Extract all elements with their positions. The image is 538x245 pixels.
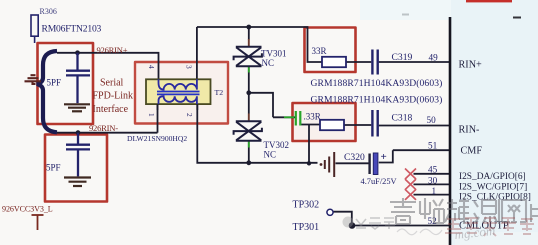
svg-text:33R: 33R xyxy=(312,46,327,56)
svg-text:T2: T2 xyxy=(215,88,224,97)
svg-text:I2S_WC/GPIO[7]: I2S_WC/GPIO[7] xyxy=(459,182,527,192)
svg-text:926RIN+: 926RIN+ xyxy=(97,45,128,55)
svg-text:52: 52 xyxy=(428,216,438,226)
svg-text:TV302: TV302 xyxy=(264,140,290,150)
svg-text:CMF: CMF xyxy=(461,146,483,157)
svg-text:926RIN-: 926RIN- xyxy=(89,123,118,133)
svg-text:4.7uF/25V: 4.7uF/25V xyxy=(361,177,397,186)
svg-text:I2S_DA/GPIO[6]: I2S_DA/GPIO[6] xyxy=(459,172,526,182)
svg-text:1: 1 xyxy=(432,186,437,196)
svg-text:.33R: .33R xyxy=(304,112,321,122)
svg-text:GRM188R71H104KA93D(0603): GRM188R71H104KA93D(0603) xyxy=(311,94,443,105)
svg-text:49: 49 xyxy=(429,53,439,63)
svg-text:DLW21SN900HQ2: DLW21SN900HQ2 xyxy=(127,134,187,143)
svg-text:C319: C319 xyxy=(392,52,413,63)
svg-text:30: 30 xyxy=(428,175,438,185)
svg-text:RIN-: RIN- xyxy=(459,125,481,136)
svg-text:4: 4 xyxy=(147,65,156,69)
svg-text:Interface: Interface xyxy=(93,104,129,115)
svg-text:5PF: 5PF xyxy=(46,163,61,173)
svg-text:+: + xyxy=(381,151,387,163)
svg-text:45: 45 xyxy=(428,165,438,175)
svg-text:TP301: TP301 xyxy=(293,222,320,233)
svg-text:TV301: TV301 xyxy=(261,49,287,59)
svg-text:FPD-Link: FPD-Link xyxy=(93,90,134,101)
svg-text:RM06FTN2103: RM06FTN2103 xyxy=(42,24,102,35)
svg-text:C318: C318 xyxy=(392,113,413,124)
svg-text:926VCC3V3_L: 926VCC3V3_L xyxy=(2,205,53,214)
svg-text:1: 1 xyxy=(147,113,156,117)
svg-text:C320: C320 xyxy=(344,152,365,163)
svg-text:5PF: 5PF xyxy=(47,78,62,88)
svg-text:NC: NC xyxy=(264,149,277,159)
svg-text:51: 51 xyxy=(428,141,438,151)
svg-text:2: 2 xyxy=(185,113,194,117)
svg-text:RIN+: RIN+ xyxy=(459,60,483,71)
svg-text:Serial: Serial xyxy=(100,77,124,88)
svg-text:TP302: TP302 xyxy=(293,200,320,211)
svg-text:3: 3 xyxy=(185,65,194,69)
svg-text:NC: NC xyxy=(262,58,275,68)
svg-text:R306: R306 xyxy=(40,7,57,16)
svg-text:50: 50 xyxy=(427,115,437,125)
svg-text:GRM188R71H104KA93D(0603): GRM188R71H104KA93D(0603) xyxy=(311,78,443,89)
